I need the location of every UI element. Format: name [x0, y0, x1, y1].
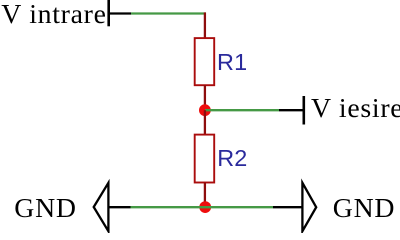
wire red node A to R2 [204, 110, 206, 135]
svg-text:V iesire: V iesire [311, 93, 400, 124]
terminal V intrare [109, 0, 131, 26]
svg-text:GND: GND [333, 193, 395, 224]
svg-text:GND: GND [14, 193, 76, 224]
wire green node A to V iesire [205, 109, 279, 111]
wire red R1 to node A [204, 85, 206, 110]
svg-text:R2: R2 [217, 145, 247, 171]
ground left [94, 183, 131, 231]
terminal V iesire [279, 96, 304, 125]
ground right [273, 183, 316, 231]
resistor R2 [195, 135, 215, 183]
resistor R1 [195, 38, 215, 85]
node B [199, 201, 211, 213]
wire top green [131, 12, 206, 14]
wire red R2 to node B [204, 183, 206, 208]
svg-text:V intrare: V intrare [1, 0, 106, 30]
svg-text:R1: R1 [217, 49, 247, 75]
wire red to R1 [204, 12, 206, 39]
wire green bottom [131, 206, 274, 208]
node A [199, 104, 211, 116]
